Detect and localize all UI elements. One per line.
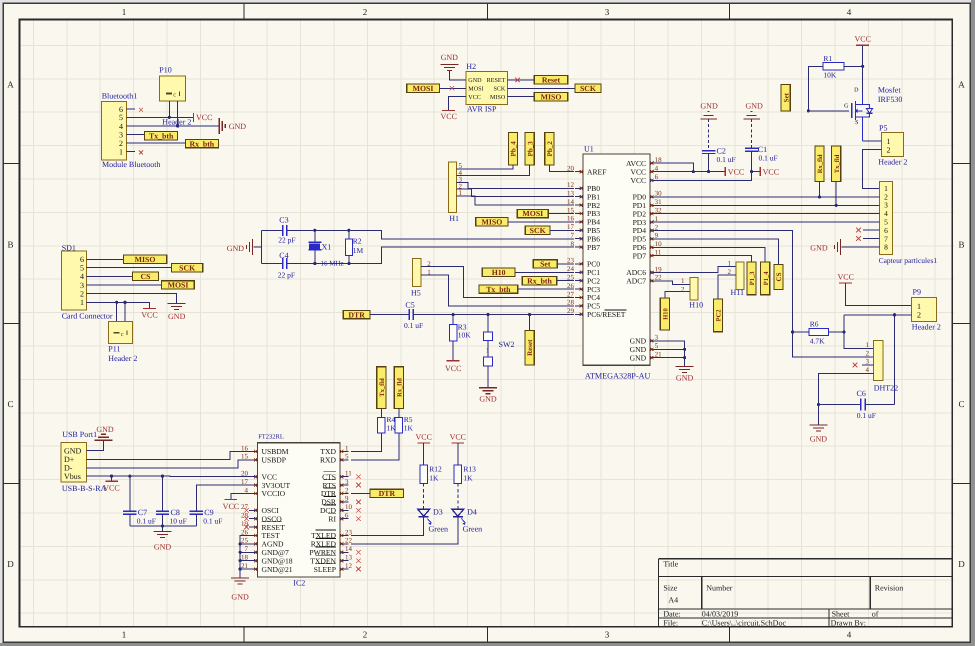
svg-text:2: 2 — [363, 7, 368, 17]
svg-text:H11: H11 — [731, 288, 744, 297]
svg-text:2: 2 — [345, 486, 349, 494]
svg-text:C4: C4 — [279, 251, 288, 260]
svg-text:12: 12 — [345, 562, 353, 570]
svg-text:B: B — [958, 240, 964, 250]
svg-text:ATMEGA328P-AU: ATMEGA328P-AU — [585, 372, 651, 381]
svg-text:X1: X1 — [322, 242, 332, 251]
svg-text:P10: P10 — [159, 66, 171, 75]
svg-text:10K: 10K — [458, 330, 472, 339]
svg-text:Reset: Reset — [542, 76, 561, 85]
svg-text:Rx_bth: Rx_bth — [527, 276, 552, 285]
svg-text:GND: GND — [231, 593, 249, 602]
svg-text:DTR: DTR — [379, 489, 396, 498]
svg-text:16: 16 — [241, 444, 249, 452]
svg-text:1: 1 — [486, 347, 490, 355]
svg-text:GND: GND — [810, 244, 828, 253]
svg-text:R1: R1 — [823, 54, 832, 63]
svg-text:R6: R6 — [810, 320, 819, 329]
svg-text:1: 1 — [119, 148, 123, 157]
svg-text:VCC: VCC — [103, 483, 119, 492]
svg-text:H10: H10 — [663, 308, 670, 320]
svg-text:4: 4 — [847, 7, 852, 17]
svg-text:IRF530: IRF530 — [878, 95, 902, 104]
svg-text:MOSI: MOSI — [413, 84, 434, 93]
svg-text:MOSI: MOSI — [522, 209, 543, 218]
svg-text:1: 1 — [866, 341, 870, 349]
svg-text:SW2: SW2 — [499, 340, 515, 349]
svg-text:PC2: PC2 — [716, 309, 723, 321]
svg-text:VCC: VCC — [468, 94, 481, 101]
svg-text:MOSI: MOSI — [468, 86, 483, 93]
svg-text:GND@21: GND@21 — [262, 565, 293, 574]
svg-text:A: A — [958, 80, 965, 90]
svg-text:R12: R12 — [429, 464, 442, 473]
svg-text:22 pF: 22 pF — [278, 236, 295, 245]
svg-text:VCC: VCC — [440, 112, 456, 121]
svg-text:MISO: MISO — [135, 255, 156, 264]
svg-text:C3: C3 — [279, 216, 288, 225]
svg-text:1: 1 — [122, 7, 127, 17]
svg-text:10: 10 — [345, 503, 353, 511]
svg-text:0.1 uF: 0.1 uF — [203, 517, 222, 526]
svg-text:1: 1 — [80, 298, 84, 307]
svg-text:of: of — [872, 609, 879, 618]
svg-text:RI: RI — [328, 514, 336, 523]
svg-text:4: 4 — [847, 630, 852, 640]
svg-text:Rx_bth: Rx_bth — [189, 139, 214, 148]
svg-text:6: 6 — [345, 512, 349, 520]
svg-text:PB7: PB7 — [587, 243, 600, 252]
svg-text:2: 2 — [363, 630, 368, 640]
svg-text:0.1 uF: 0.1 uF — [404, 321, 423, 330]
svg-text:Header 2: Header 2 — [108, 354, 137, 363]
svg-text:Tx_fld: Tx_fld — [834, 154, 841, 173]
svg-text:G: G — [844, 104, 849, 110]
svg-text:C6: C6 — [857, 389, 866, 398]
svg-text:VCC: VCC — [415, 433, 431, 442]
svg-text:0.1 uF: 0.1 uF — [717, 155, 736, 164]
svg-text:Title: Title — [663, 560, 678, 569]
svg-text:SCK: SCK — [179, 263, 195, 272]
svg-text:USBDP: USBDP — [262, 456, 286, 465]
svg-text:GND: GND — [700, 102, 718, 111]
svg-text:10 uF: 10 uF — [170, 517, 187, 526]
svg-text:GND: GND — [154, 543, 172, 552]
svg-text:AVR ISP: AVR ISP — [467, 105, 497, 114]
svg-text:3: 3 — [80, 281, 84, 290]
svg-text:20: 20 — [241, 470, 249, 478]
svg-text:0.1 uF: 0.1 uF — [857, 411, 876, 420]
svg-text:Green: Green — [463, 524, 483, 533]
svg-text:Header 2: Header 2 — [912, 323, 941, 332]
svg-text:5: 5 — [345, 453, 349, 461]
svg-text:10K: 10K — [823, 71, 837, 80]
svg-text:Green: Green — [429, 524, 449, 533]
svg-text:VCCIO: VCCIO — [262, 489, 286, 498]
svg-text:GND: GND — [96, 425, 114, 434]
svg-text:File:: File: — [663, 618, 678, 627]
svg-text:GND: GND — [227, 244, 245, 253]
svg-text:c: c — [173, 92, 176, 99]
svg-text:9: 9 — [345, 495, 349, 503]
svg-text:2: 2 — [681, 286, 685, 294]
svg-text:SCK: SCK — [493, 86, 505, 93]
svg-text:Card Connector: Card Connector — [62, 312, 113, 321]
svg-text:Sheet: Sheet — [832, 609, 851, 618]
svg-text:4: 4 — [866, 366, 870, 374]
svg-text:4.7K: 4.7K — [810, 336, 825, 345]
svg-text:2: 2 — [917, 310, 921, 319]
svg-text:SCK: SCK — [580, 84, 596, 93]
svg-text:DHT22: DHT22 — [874, 384, 898, 393]
svg-text:Set: Set — [540, 260, 551, 269]
svg-text:14: 14 — [345, 545, 353, 553]
svg-text:Date:: Date: — [663, 609, 680, 618]
svg-text:7: 7 — [571, 232, 575, 240]
svg-text:2: 2 — [887, 146, 891, 155]
svg-text:GND: GND — [468, 77, 482, 84]
svg-text:16 MHz: 16 MHz — [321, 260, 344, 268]
svg-text:H10: H10 — [689, 301, 703, 310]
svg-text:SCK: SCK — [530, 226, 546, 235]
svg-text:MISO: MISO — [490, 94, 506, 101]
svg-text:RESET: RESET — [487, 77, 506, 84]
svg-text:USB Port1: USB Port1 — [62, 430, 97, 439]
svg-text:Rx_fld: Rx_fld — [396, 378, 403, 397]
svg-text:Tx_bth: Tx_bth — [486, 285, 511, 294]
svg-text:D3: D3 — [433, 508, 443, 517]
svg-text:VCC: VCC — [728, 167, 744, 176]
svg-text:2: 2 — [866, 349, 870, 357]
svg-text:VCC: VCC — [450, 433, 466, 442]
svg-text:MOSI: MOSI — [168, 281, 189, 290]
svg-text:3: 3 — [605, 630, 610, 640]
svg-text:1M: 1M — [353, 246, 364, 255]
svg-text:Pb_4: Pb_4 — [510, 141, 518, 157]
svg-text:A: A — [7, 80, 14, 90]
svg-text:GND: GND — [479, 395, 497, 404]
svg-text:22 pF: 22 pF — [278, 271, 295, 280]
svg-text:Number: Number — [706, 584, 733, 593]
svg-text:P11: P11 — [108, 345, 120, 354]
svg-text:AREF: AREF — [587, 167, 606, 176]
svg-text:1: 1 — [681, 277, 685, 285]
svg-text:C:\Users\..\circuit.SchDoc: C:\Users\..\circuit.SchDoc — [702, 618, 787, 627]
svg-text:D: D — [958, 559, 965, 569]
svg-text:PC6/RESET: PC6/RESET — [587, 310, 626, 319]
svg-text:1: 1 — [122, 630, 127, 640]
svg-text:CS: CS — [775, 272, 783, 281]
svg-text:Rx_fld: Rx_fld — [817, 154, 824, 173]
svg-text:P1_4: P1_4 — [763, 271, 770, 285]
svg-text:1K: 1K — [404, 423, 414, 432]
svg-text:4: 4 — [80, 272, 84, 281]
svg-text:D: D — [854, 88, 859, 94]
svg-text:Size: Size — [663, 584, 677, 593]
svg-text:0.1 uF: 0.1 uF — [759, 154, 778, 163]
svg-text:1K: 1K — [463, 473, 473, 482]
svg-text:MISO: MISO — [482, 218, 503, 227]
svg-text:FT232RL: FT232RL — [258, 434, 284, 441]
svg-text:PD7: PD7 — [633, 251, 647, 260]
svg-text:8: 8 — [571, 240, 575, 248]
svg-text:S: S — [855, 120, 858, 126]
svg-text:H5: H5 — [411, 289, 421, 298]
svg-text:5: 5 — [119, 113, 123, 122]
svg-text:SLEEP: SLEEP — [314, 565, 336, 574]
svg-text:GND: GND — [630, 353, 647, 362]
svg-text:1: 1 — [728, 259, 732, 267]
svg-text:3: 3 — [866, 358, 870, 366]
svg-text:U1: U1 — [584, 145, 594, 154]
svg-text:04/03/2019: 04/03/2019 — [702, 609, 738, 618]
svg-text:Capteur particules1: Capteur particules1 — [879, 256, 938, 265]
svg-text:Revision: Revision — [875, 584, 903, 593]
svg-text:RXD: RXD — [320, 456, 337, 465]
svg-text:MISO: MISO — [541, 92, 562, 101]
svg-text:B: B — [7, 240, 13, 250]
svg-text:P5: P5 — [879, 124, 887, 133]
svg-text:R2: R2 — [353, 237, 362, 246]
svg-text:H10: H10 — [492, 268, 506, 277]
svg-text:GND: GND — [746, 102, 764, 111]
svg-text:D4: D4 — [467, 508, 477, 517]
svg-text:29: 29 — [567, 307, 575, 315]
svg-text:VCC: VCC — [141, 311, 157, 320]
svg-text:Set: Set — [782, 92, 790, 102]
svg-text:11: 11 — [345, 470, 352, 478]
svg-text:VCC: VCC — [630, 167, 646, 176]
svg-text:P9: P9 — [913, 288, 921, 297]
svg-text:Drawn By:: Drawn By: — [831, 618, 866, 627]
svg-text:13: 13 — [345, 554, 353, 562]
svg-text:2: 2 — [119, 139, 123, 148]
svg-text:D: D — [7, 559, 14, 569]
svg-text:15: 15 — [241, 453, 249, 461]
svg-text:Reset: Reset — [526, 339, 534, 356]
svg-text:Mosfet: Mosfet — [878, 86, 901, 95]
svg-text:VCC: VCC — [837, 273, 853, 282]
svg-text:Tx_fld: Tx_fld — [379, 378, 386, 397]
svg-text:GND: GND — [676, 374, 694, 383]
svg-text:A4: A4 — [668, 596, 678, 605]
svg-text:GND: GND — [168, 312, 186, 321]
svg-text:VCC: VCC — [854, 35, 870, 44]
svg-text:VCC: VCC — [445, 364, 461, 373]
svg-text:IC2: IC2 — [293, 579, 305, 588]
svg-text:CS: CS — [141, 272, 151, 281]
svg-text:3: 3 — [605, 7, 610, 17]
svg-text:3: 3 — [345, 478, 349, 486]
svg-text:c: c — [121, 331, 124, 338]
svg-text:8: 8 — [884, 243, 888, 252]
svg-text:1: 1 — [345, 444, 349, 452]
svg-text:R13: R13 — [463, 464, 476, 473]
svg-text:C: C — [7, 399, 13, 409]
svg-text:VCC: VCC — [223, 502, 239, 511]
svg-text:P1_3: P1_3 — [749, 271, 756, 285]
svg-text:H1: H1 — [449, 214, 459, 223]
svg-text:GND: GND — [810, 435, 828, 444]
svg-text:DTR: DTR — [348, 310, 365, 319]
svg-text:Tx_bth: Tx_bth — [149, 132, 174, 141]
svg-text:VCC: VCC — [630, 176, 646, 185]
svg-text:Module Bluetooth: Module Bluetooth — [102, 160, 160, 169]
svg-text:Pb_2: Pb_2 — [546, 141, 554, 157]
svg-text:Pb_3: Pb_3 — [526, 141, 534, 157]
svg-text:C5: C5 — [405, 300, 414, 309]
svg-text:GND: GND — [64, 447, 82, 456]
svg-text:H2: H2 — [466, 62, 476, 71]
svg-text:4: 4 — [119, 122, 123, 131]
svg-text:Header 2: Header 2 — [878, 157, 907, 166]
svg-text:C: C — [958, 399, 964, 409]
svg-text:GND: GND — [441, 53, 459, 62]
svg-text:1K: 1K — [429, 473, 439, 482]
svg-text:Bluetooth1: Bluetooth1 — [102, 92, 138, 101]
svg-text:VCC: VCC — [196, 113, 212, 122]
svg-text:USB-B-S-RA: USB-B-S-RA — [62, 484, 107, 493]
svg-text:GND: GND — [229, 122, 247, 131]
svg-text:Vbus: Vbus — [64, 472, 81, 481]
svg-text:0.1 uF: 0.1 uF — [137, 517, 156, 526]
svg-text:ADC7: ADC7 — [626, 277, 646, 286]
svg-text:VCC: VCC — [763, 167, 779, 176]
